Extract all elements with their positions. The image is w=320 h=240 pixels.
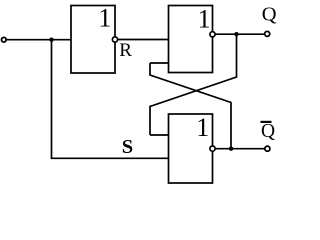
overline of Qbar — [261, 121, 272, 123]
wire U1 to U2 (R line) — [118, 39, 169, 41]
bubble of U3 — [210, 146, 215, 151]
node junction J1 — [49, 38, 53, 42]
wire feedback arm to Qbar junction — [150, 63, 231, 149]
node junction J2 on Q wire — [234, 32, 238, 36]
wire stub from U2 lower input — [150, 62, 169, 64]
gate U1 (NOT, "1") — [71, 6, 115, 74]
svg-text:S: S — [122, 136, 133, 158]
svg-text:Q: Q — [262, 4, 277, 26]
gate U3 (lower latch, "1") — [169, 114, 213, 183]
bubble of U2 — [210, 32, 215, 37]
svg-text:1: 1 — [196, 113, 209, 142]
node junction J3 on Qbar wire — [229, 147, 233, 151]
input terminal — [2, 37, 7, 42]
gate U2 (upper latch, "1") — [169, 6, 213, 73]
svg-text:R: R — [119, 40, 132, 61]
wire feedback arm from J2 down — [150, 34, 237, 135]
wire stub into U3 upper input — [150, 134, 169, 136]
wire J1 down — [51, 40, 53, 159]
terminal Q — [265, 31, 270, 36]
bubble of U1 — [112, 37, 117, 42]
wire U2 output to Q terminal — [215, 33, 265, 35]
terminal Qbar — [265, 146, 270, 151]
wire U3 output to Qbar terminal — [215, 148, 265, 150]
wire S horizontal — [51, 157, 169, 159]
svg-text:1: 1 — [98, 4, 111, 33]
svg-text:1: 1 — [198, 5, 211, 34]
wire input to gate U1 — [6, 39, 71, 41]
svg-text:Q: Q — [261, 121, 275, 142]
